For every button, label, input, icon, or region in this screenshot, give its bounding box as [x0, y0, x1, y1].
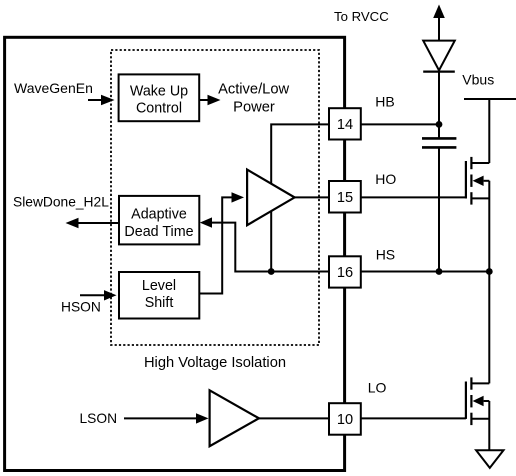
pin 15 [329, 181, 361, 213]
svg-text:HSON: HSON [61, 300, 101, 315]
high voltage isolation dashed box [111, 50, 319, 345]
block Adaptive Dead Time [119, 196, 199, 245]
svg-text:Power: Power [233, 99, 275, 115]
wire driver return to HS node [270, 208, 272, 272]
svg-text:Vbus: Vbus [462, 72, 494, 88]
wire pin 14 HB to driver supply [271, 124, 329, 184]
chip boundary box [5, 37, 345, 470]
svg-text:Active/Low: Active/Low [218, 81, 289, 97]
svg-text:HS: HS [376, 246, 395, 262]
svg-text:Dead Time: Dead Time [124, 224, 193, 240]
svg-text:Shift: Shift [145, 295, 174, 311]
svg-text:Level: Level [142, 278, 176, 294]
svg-text:15: 15 [337, 190, 353, 206]
wire HS from pin 16 to half-bridge node [361, 271, 489, 273]
svg-text:High Voltage Isolation: High Voltage Isolation [144, 355, 286, 371]
block Level Shift [119, 272, 199, 319]
label Vbus rail wire [464, 99, 516, 163]
pin 16 [329, 256, 361, 287]
op-amp style buffer LO driver [210, 390, 259, 446]
svg-text:LO: LO [368, 380, 387, 396]
svg-text:Control: Control [136, 100, 182, 116]
wire HSON input with arrow to Level Shift [80, 290, 117, 300]
wire LSON input with arrow [124, 413, 209, 423]
svg-text:16: 16 [337, 265, 353, 281]
node HB junction dot [436, 121, 443, 128]
wire HO from pin 15 to high-side gate [361, 196, 466, 198]
wire HO driver output to pin 15 [295, 196, 329, 198]
svg-text:14: 14 [337, 117, 353, 133]
wire Level Shift output to HO driver input [199, 192, 244, 293]
svg-text:HO: HO [375, 171, 396, 187]
pin 10 [329, 403, 361, 435]
transistor Q2 low-side MOSFET [466, 272, 489, 451]
svg-text:WaveGenEn: WaveGenEn [14, 80, 93, 96]
ground [476, 450, 503, 468]
wire HB from pin 14 to bootstrap node [361, 123, 439, 125]
svg-text:LSON: LSON [80, 411, 118, 426]
svg-text:To RVCC: To RVCC [334, 9, 389, 24]
pin 14 [329, 108, 361, 139]
arrow to RVCC [433, 5, 445, 41]
bootstrap capacitor C1 [422, 124, 456, 271]
op-amp style buffer HO driver [247, 170, 295, 226]
wire LO from pin 10 to low-side gate [361, 417, 466, 419]
svg-text:Wake Up: Wake Up [130, 84, 188, 100]
node HS driver return junction dot [268, 268, 275, 275]
svg-text:SlewDone_H2L: SlewDone_H2L [13, 195, 109, 210]
svg-text:Adaptive: Adaptive [131, 207, 187, 223]
wire LO driver output to pin 10 [259, 417, 329, 419]
node HS half-bridge junction dot [486, 268, 493, 275]
wire WaveGenEn input with arrow [88, 95, 115, 105]
svg-text:HB: HB [375, 93, 394, 109]
node HS capacitor junction dot [436, 268, 443, 275]
wire SlewDone_H2L output arrow from Adaptive Dead Time [66, 218, 120, 228]
block Wake Up Control [119, 74, 200, 121]
wire HS feedback into Adaptive Dead Time with arrow [200, 217, 329, 271]
bootstrap diode D1 [423, 41, 455, 125]
transistor Q1 high-side MOSFET [466, 157, 489, 272]
svg-text:10: 10 [337, 412, 353, 428]
wire Wake Up Control output arrow to Active/Low Power [199, 95, 221, 105]
